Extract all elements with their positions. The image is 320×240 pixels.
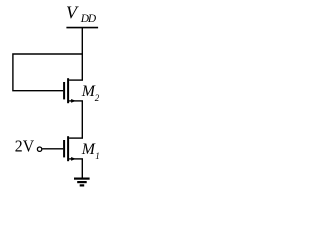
M1 source arrow (71, 157, 76, 161)
wire feedback M2 drain node to M2 gate (13, 54, 82, 91)
ground (74, 179, 90, 186)
M1 drain lead (69, 137, 83, 139)
svg-text:DD: DD (80, 13, 97, 25)
ground bar 3 (80, 184, 85, 186)
svg-text:2V: 2V (15, 137, 35, 156)
svg-text:M: M (81, 141, 96, 158)
M2 source arrow (71, 99, 76, 103)
svg-text:V: V (66, 2, 79, 22)
M2 source lead (69, 100, 83, 102)
label M1 (81, 141, 100, 161)
M2 gate bar (63, 82, 65, 99)
transistor M2 (63, 78, 83, 103)
ground bar 2 (77, 181, 87, 183)
VDD power rail (66, 27, 98, 29)
transistor M1 (63, 136, 83, 161)
M2 channel bar (67, 78, 69, 103)
M1 gate bar (63, 140, 65, 157)
wire VDD rail to M2 drain (81, 28, 83, 81)
svg-text:2: 2 (95, 93, 100, 103)
wire terminal to M1 gate (42, 148, 63, 150)
wire M1 source to ground (81, 159, 83, 178)
M2 drain lead (69, 79, 83, 81)
label M2 (81, 83, 100, 103)
svg-text:1: 1 (95, 151, 100, 161)
M1 source lead (69, 158, 83, 160)
wire M2 source to M1 drain (81, 101, 83, 138)
net VDD label (66, 2, 97, 25)
svg-text:M: M (81, 83, 96, 100)
input terminal circle (37, 147, 41, 151)
M1 channel bar (67, 136, 69, 161)
ground bar 1 (74, 178, 90, 180)
